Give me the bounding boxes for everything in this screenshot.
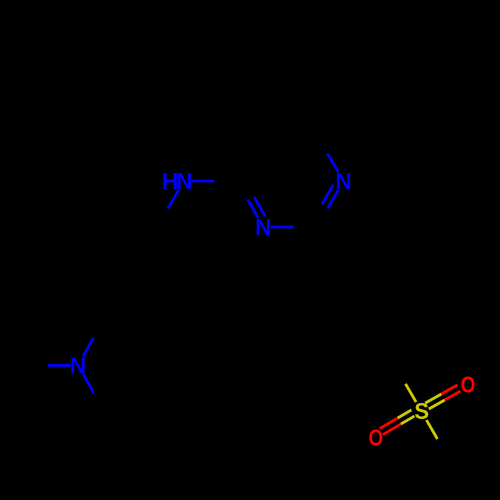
svg-text:N: N	[70, 352, 86, 378]
bond N7-C1' (HN to aniline ring), N half	[168, 190, 179, 209]
svg-text:S: S	[414, 399, 429, 425]
bond S=O1 double offset line, S half	[425, 394, 441, 403]
bond N1=C4 double main line, N half	[248, 200, 259, 219]
bond S=O1 double offset line, O half	[441, 385, 457, 394]
svg-text:O: O	[461, 373, 476, 398]
svg-text:N: N	[255, 214, 271, 240]
svg-text:N: N	[335, 168, 351, 194]
bond N3=C2 double inner line, N half	[322, 185, 333, 204]
bond S=O2 double offset line, O half	[380, 418, 398, 429]
bond S=O2 double offset line, S half	[398, 410, 412, 418]
bond N7-C4 (HN to pyrimidine C4), N half	[191, 180, 214, 183]
bond N3-C6 single, N half	[328, 153, 339, 172]
bond N8-CH3 lower, N half	[83, 374, 94, 393]
bond S-C4'' (S to benzene ring), S half	[406, 384, 417, 402]
svg-text:O: O	[368, 426, 383, 451]
svg-text:N: N	[176, 168, 192, 194]
bond S=O1 double main line, O half	[445, 391, 461, 400]
bond S=O2 double main line, O half	[383, 424, 401, 435]
bond N1=C4 double inner line, N half	[254, 197, 265, 216]
bond N1-C2 single, N half	[271, 226, 294, 229]
bond S=O1 double main line, S half	[429, 400, 445, 409]
bond S-CH3, S half	[426, 420, 437, 439]
bond N8-C4' (dimethylamino N to aniline ring), N half	[83, 338, 93, 356]
bond N3=C2 double main line, N half	[328, 190, 339, 209]
bond S=O2 double main line, S half	[401, 416, 415, 424]
bond N8-CH3 left, N half	[48, 364, 71, 367]
